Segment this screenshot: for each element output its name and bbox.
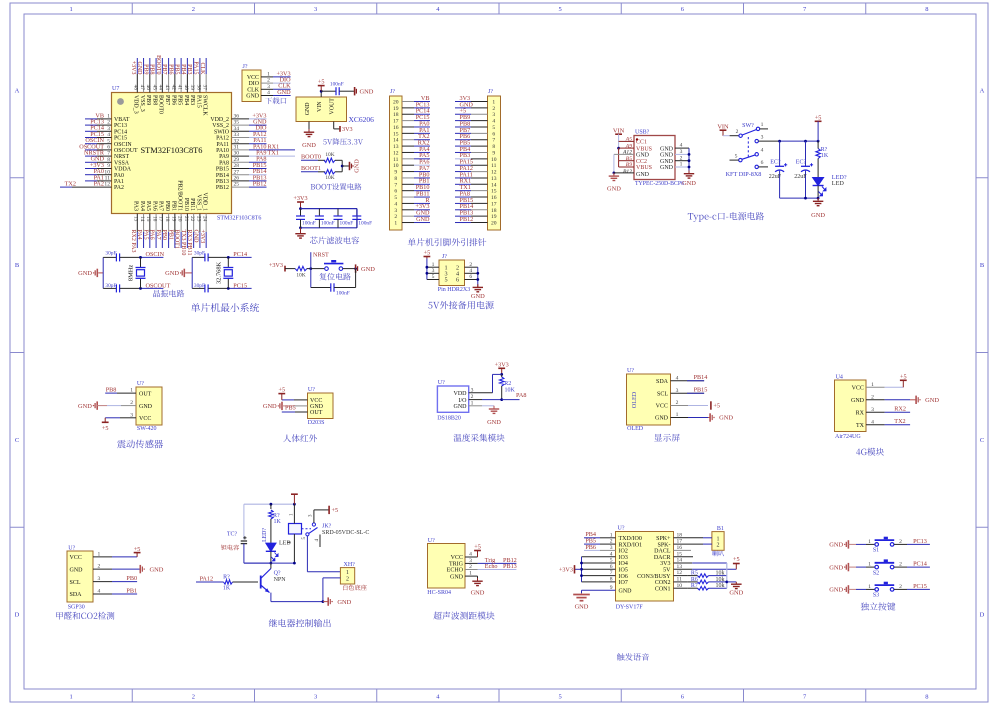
- svg-text:1: 1: [680, 162, 683, 168]
- svg-text:TX: TX: [856, 423, 865, 429]
- svg-text:3: 3: [492, 112, 495, 118]
- svg-text:LED: LED: [279, 541, 291, 547]
- svg-text:VDDA: VDDA: [114, 167, 132, 173]
- svg-text:+5: +5: [424, 249, 431, 256]
- svg-text:GND: GND: [829, 564, 843, 571]
- svg-text:I/O: I/O: [459, 398, 468, 404]
- svg-text:GND: GND: [636, 172, 650, 178]
- svg-text:U7: U7: [112, 86, 119, 92]
- svg-text:18: 18: [491, 208, 497, 214]
- svg-text:20: 20: [177, 216, 183, 222]
- svg-text:17: 17: [491, 201, 497, 207]
- svg-text:+5: +5: [733, 556, 740, 563]
- svg-text:Pin HDR2X3: Pin HDR2X3: [438, 287, 471, 293]
- svg-text:PB1: PB1: [167, 230, 173, 240]
- svg-text:5: 5: [444, 277, 447, 284]
- svg-text:5: 5: [107, 138, 110, 144]
- svg-text:3: 3: [314, 694, 317, 701]
- svg-text:GND: GND: [416, 216, 430, 223]
- svg-text:DACR: DACR: [654, 555, 671, 561]
- svg-text:5: 5: [394, 195, 397, 201]
- svg-text:35: 35: [234, 120, 240, 126]
- svg-text:39: 39: [189, 85, 195, 91]
- svg-text:TYPEC-250D-BCP6: TYPEC-250D-BCP6: [635, 181, 684, 187]
- svg-text:3V3: 3V3: [342, 126, 353, 133]
- svg-text:47: 47: [139, 85, 145, 91]
- svg-text:9: 9: [107, 163, 110, 169]
- svg-text:A: A: [15, 87, 20, 94]
- svg-text:C: C: [15, 437, 19, 444]
- svg-text:EC?: EC?: [796, 160, 807, 166]
- svg-text:SPK-: SPK-: [657, 542, 670, 548]
- svg-text:17: 17: [393, 119, 399, 125]
- svg-text:NPN: NPN: [274, 577, 287, 583]
- svg-text:PB5: PB5: [285, 405, 296, 412]
- svg-text:3: 3: [314, 6, 317, 13]
- svg-text:PA7: PA7: [158, 201, 164, 211]
- svg-text:+5: +5: [474, 544, 481, 551]
- svg-text:37: 37: [202, 85, 208, 91]
- svg-text:IO2: IO2: [619, 549, 628, 555]
- svg-text:BOOT0: BOOT0: [301, 154, 321, 161]
- svg-text:PB15: PB15: [694, 387, 708, 394]
- svg-text:PB2/BOOT1: PB2/BOOT1: [177, 180, 183, 211]
- svg-text:38: 38: [195, 85, 201, 91]
- svg-text:PB1: PB1: [126, 587, 137, 594]
- svg-text:GND: GND: [660, 146, 674, 152]
- svg-text:8: 8: [925, 694, 928, 701]
- svg-text:Air724UG: Air724UG: [835, 434, 861, 440]
- svg-text:TRIG: TRIG: [449, 562, 464, 568]
- svg-text:3: 3: [432, 268, 435, 274]
- svg-text:PA2: PA2: [114, 185, 124, 191]
- svg-text:PB7: PB7: [164, 95, 170, 105]
- svg-text:U?: U?: [627, 368, 634, 374]
- svg-text:1: 1: [868, 584, 871, 590]
- svg-text:U?: U?: [68, 545, 75, 551]
- svg-text:EC?: EC?: [770, 160, 781, 166]
- svg-text:1: 1: [492, 100, 495, 106]
- svg-text:32: 32: [234, 138, 240, 144]
- svg-text:GND: GND: [660, 153, 674, 159]
- svg-text:22uF: 22uF: [794, 174, 807, 180]
- svg-text:SRD-05VDC-SL-C: SRD-05VDC-SL-C: [322, 530, 369, 536]
- svg-text:GND: GND: [619, 589, 633, 595]
- svg-text:PB4: PB4: [180, 64, 186, 74]
- svg-text:2: 2: [899, 539, 902, 545]
- svg-text:USB?: USB?: [635, 130, 650, 136]
- svg-text:25: 25: [234, 182, 240, 188]
- svg-text:34: 34: [234, 126, 240, 132]
- svg-text:PB8: PB8: [106, 387, 117, 394]
- svg-text:B: B: [15, 262, 20, 269]
- svg-text:+5: +5: [279, 387, 286, 394]
- svg-text:BOOT1: BOOT1: [301, 165, 321, 172]
- svg-text:GND: GND: [471, 293, 485, 300]
- svg-text:SCL: SCL: [70, 580, 81, 586]
- svg-text:SW-420: SW-420: [137, 426, 157, 432]
- svg-text:+3V3: +3V3: [199, 230, 205, 244]
- svg-text:100nF: 100nF: [330, 82, 344, 88]
- svg-text:IO4: IO4: [619, 561, 628, 567]
- svg-text:5: 5: [559, 694, 562, 701]
- svg-text:PB12: PB12: [460, 216, 474, 223]
- svg-text:GND: GND: [682, 180, 696, 187]
- svg-text:15: 15: [491, 189, 497, 195]
- svg-text:8: 8: [394, 176, 397, 182]
- svg-text:PB10: PB10: [183, 198, 189, 211]
- svg-text:Echo: Echo: [485, 563, 498, 570]
- svg-text:10: 10: [491, 157, 497, 163]
- svg-text:BOOT1: BOOT1: [174, 230, 180, 249]
- svg-text:XC6206: XC6206: [349, 115, 375, 124]
- svg-text:J?: J?: [243, 64, 248, 70]
- svg-text:36: 36: [234, 114, 240, 120]
- svg-text:S1: S1: [873, 548, 879, 554]
- svg-text:GND: GND: [811, 212, 825, 219]
- svg-text:GND: GND: [471, 590, 485, 597]
- svg-text:40: 40: [183, 85, 189, 91]
- svg-text:U?: U?: [428, 538, 435, 544]
- svg-text:CON2: CON2: [655, 580, 671, 586]
- svg-text:VBUS: VBUS: [636, 165, 652, 171]
- svg-text:VSS_2: VSS_2: [212, 123, 229, 129]
- svg-text:6: 6: [469, 274, 472, 280]
- svg-text:+5: +5: [102, 425, 109, 432]
- svg-text:PA6: PA6: [151, 201, 157, 211]
- svg-text:GND: GND: [263, 403, 277, 410]
- svg-text:11: 11: [491, 163, 497, 169]
- svg-text:GND: GND: [829, 587, 843, 594]
- svg-text:1: 1: [868, 539, 871, 545]
- svg-text:PB3: PB3: [189, 95, 195, 105]
- svg-text:RX3 PB11: RX3 PB11: [186, 230, 192, 256]
- svg-text:PB3: PB3: [186, 64, 192, 74]
- svg-text:+5: +5: [900, 373, 907, 380]
- svg-text:+3V3: +3V3: [269, 262, 283, 269]
- svg-text:2: 2: [469, 262, 472, 268]
- svg-text:PB12: PB12: [253, 181, 267, 188]
- svg-text:GND: GND: [719, 415, 733, 422]
- svg-text:45: 45: [151, 85, 157, 91]
- svg-text:14: 14: [393, 138, 399, 144]
- svg-text:OSCOUT: OSCOUT: [146, 282, 171, 289]
- svg-text:GND: GND: [136, 62, 142, 76]
- svg-text:7: 7: [394, 182, 397, 188]
- svg-text:1: 1: [107, 114, 110, 120]
- svg-text:PC14: PC14: [114, 129, 127, 135]
- svg-text:PB1: PB1: [170, 201, 176, 211]
- svg-text:PC14: PC14: [913, 561, 927, 568]
- svg-text:22uF: 22uF: [769, 174, 782, 180]
- svg-text:2: 2: [899, 562, 902, 568]
- svg-text:9: 9: [492, 150, 495, 156]
- svg-text:1: 1: [70, 694, 73, 701]
- svg-text:1: 1: [868, 562, 871, 568]
- svg-text:GND: GND: [660, 159, 674, 165]
- svg-text:VIN: VIN: [317, 101, 323, 112]
- svg-text:48: 48: [133, 85, 139, 91]
- svg-text:2: 2: [192, 694, 195, 701]
- svg-text:U?: U?: [137, 381, 144, 387]
- svg-text:6: 6: [492, 131, 495, 137]
- svg-text:GND: GND: [660, 165, 674, 171]
- svg-text:100nF: 100nF: [321, 221, 335, 227]
- svg-text:PA15: PA15: [193, 61, 199, 74]
- svg-text:VSS_1: VSS_1: [195, 194, 201, 211]
- svg-text:2: 2: [107, 120, 110, 126]
- svg-text:11: 11: [393, 157, 399, 163]
- svg-text:U?: U?: [308, 387, 315, 393]
- svg-text:PA1: PA1: [114, 179, 124, 185]
- svg-text:TX1: TX1: [268, 150, 279, 157]
- svg-text:4: 4: [469, 268, 472, 274]
- svg-text:PB9: PB9: [142, 64, 148, 74]
- svg-text:RX: RX: [856, 411, 865, 417]
- svg-text:7: 7: [107, 151, 110, 157]
- svg-text:10: 10: [104, 169, 110, 175]
- svg-text:PC13: PC13: [913, 538, 927, 545]
- svg-text:8: 8: [925, 6, 928, 13]
- svg-text:GND: GND: [78, 270, 92, 277]
- svg-text:11: 11: [105, 176, 111, 182]
- svg-text:PC14: PC14: [233, 251, 247, 258]
- svg-text:100nF: 100nF: [302, 221, 316, 227]
- svg-text:PB6: PB6: [585, 544, 596, 551]
- svg-text:D: D: [980, 612, 985, 619]
- svg-text:30pF: 30pF: [105, 283, 116, 289]
- svg-text:ECHO: ECHO: [447, 568, 464, 574]
- svg-text:1: 1: [394, 221, 397, 227]
- svg-text:GND: GND: [851, 398, 865, 404]
- svg-text:B1: B1: [717, 526, 724, 532]
- svg-text:PB0: PB0: [164, 201, 170, 211]
- svg-text:2: 2: [267, 78, 270, 84]
- svg-text:26: 26: [234, 176, 240, 182]
- svg-text:5: 5: [559, 6, 562, 13]
- svg-text:TX2: TX2: [65, 181, 76, 188]
- svg-text:R2: R2: [504, 381, 511, 387]
- svg-text:PB15: PB15: [216, 167, 229, 173]
- svg-text:1: 1: [267, 72, 270, 78]
- svg-text:19: 19: [491, 214, 497, 220]
- svg-text:OSCIN: OSCIN: [114, 142, 132, 148]
- svg-text:GND: GND: [193, 230, 199, 244]
- svg-text:SCL: SCL: [657, 391, 668, 397]
- svg-text:PA7: PA7: [155, 230, 161, 240]
- svg-text:12: 12: [491, 170, 497, 176]
- svg-text:PA6: PA6: [149, 230, 155, 240]
- svg-text:6: 6: [456, 277, 459, 284]
- svg-text:RX2: RX2: [894, 406, 906, 413]
- svg-text:LED?: LED?: [262, 528, 268, 542]
- svg-text:8: 8: [107, 157, 110, 163]
- svg-text:+5: +5: [318, 78, 325, 85]
- svg-text:4: 4: [267, 90, 270, 96]
- svg-text:3V3: 3V3: [660, 561, 670, 567]
- svg-text:14: 14: [491, 182, 497, 188]
- svg-text:A: A: [980, 87, 985, 94]
- svg-text:GND: GND: [729, 590, 743, 597]
- svg-text:NRST: NRST: [114, 154, 129, 160]
- svg-text:2: 2: [192, 6, 195, 13]
- svg-text:3: 3: [761, 134, 764, 140]
- svg-text:DACL: DACL: [654, 549, 671, 555]
- svg-text:VDD_3: VDD_3: [133, 95, 139, 114]
- svg-text:12: 12: [393, 150, 399, 156]
- svg-text:IO7: IO7: [619, 580, 628, 586]
- svg-text:15: 15: [145, 216, 151, 222]
- svg-text:GND: GND: [454, 404, 468, 410]
- svg-text:SDA: SDA: [70, 592, 83, 598]
- svg-text:RXD/IO1: RXD/IO1: [619, 542, 643, 548]
- svg-text:20: 20: [393, 100, 399, 106]
- svg-text:PB14: PB14: [694, 374, 708, 381]
- svg-text:42: 42: [170, 85, 176, 91]
- svg-text:GND: GND: [165, 270, 179, 277]
- svg-text:GND: GND: [337, 599, 351, 606]
- svg-text:10K: 10K: [325, 152, 334, 158]
- svg-text:30pF: 30pF: [105, 251, 116, 257]
- svg-text:5: 5: [432, 274, 435, 280]
- svg-text:VBUS: VBUS: [636, 146, 652, 152]
- svg-text:1K: 1K: [274, 519, 282, 525]
- svg-text:17: 17: [158, 216, 164, 222]
- svg-text:19: 19: [393, 106, 399, 112]
- svg-text:18: 18: [393, 112, 399, 118]
- svg-text:KFT DIP-8X8: KFT DIP-8X8: [726, 171, 762, 178]
- svg-text:C: C: [980, 437, 984, 444]
- svg-text:10K: 10K: [505, 388, 516, 394]
- svg-text:OLED: OLED: [627, 426, 644, 432]
- svg-text:21: 21: [183, 216, 189, 222]
- svg-text:GND: GND: [360, 89, 374, 96]
- svg-text:23: 23: [195, 216, 201, 222]
- svg-text:PA2: PA2: [94, 181, 104, 188]
- svg-text:1: 1: [432, 262, 435, 268]
- svg-text:2: 2: [899, 584, 902, 590]
- svg-text:TC?: TC?: [227, 532, 238, 538]
- svg-text:+3V3: +3V3: [495, 362, 509, 369]
- svg-text:5: 5: [735, 153, 738, 159]
- svg-text:15: 15: [393, 131, 399, 137]
- svg-text:PB7: PB7: [161, 64, 167, 74]
- svg-text:XH?: XH?: [344, 562, 356, 568]
- svg-text:1: 1: [346, 570, 349, 576]
- svg-text:5: 5: [492, 125, 495, 131]
- svg-text:CC1: CC1: [636, 140, 647, 146]
- svg-text:6: 6: [394, 189, 397, 195]
- svg-text:4: 4: [492, 119, 495, 125]
- svg-text:30pF: 30pF: [194, 251, 205, 257]
- svg-text:RX2 PA3: RX2 PA3: [130, 230, 136, 253]
- svg-text:VCC: VCC: [247, 75, 259, 81]
- svg-text:PA8: PA8: [516, 392, 526, 399]
- svg-text:PC15: PC15: [913, 583, 927, 590]
- svg-text:VDD: VDD: [454, 391, 468, 397]
- svg-text:PC15: PC15: [233, 282, 247, 289]
- svg-text:S2: S2: [873, 570, 879, 576]
- svg-text:PA3: PA3: [133, 201, 139, 211]
- svg-text:VCC: VCC: [139, 416, 151, 422]
- svg-text:JK?: JK?: [322, 524, 332, 530]
- svg-text:PC15: PC15: [114, 136, 127, 142]
- svg-text:PA15: PA15: [195, 95, 201, 108]
- svg-text:CLK: CLK: [199, 63, 205, 76]
- svg-text:GND: GND: [487, 419, 501, 426]
- svg-text:OSCIN: OSCIN: [146, 251, 165, 258]
- svg-text:13: 13: [491, 176, 497, 182]
- svg-text:J?: J?: [390, 89, 395, 95]
- svg-text:PB13: PB13: [216, 179, 229, 185]
- svg-text:6: 6: [107, 145, 110, 151]
- svg-text:CON3/BUSY: CON3/BUSY: [637, 574, 671, 580]
- svg-text:18: 18: [164, 216, 170, 222]
- svg-text:3: 3: [394, 208, 397, 214]
- svg-text:NRST: NRST: [313, 252, 329, 259]
- svg-text:PB6: PB6: [170, 95, 176, 105]
- svg-text:PB12: PB12: [216, 185, 229, 191]
- svg-text:2: 2: [736, 129, 739, 135]
- svg-text:B: B: [980, 262, 985, 269]
- svg-text:1: 1: [70, 6, 73, 13]
- svg-text:41: 41: [177, 85, 183, 91]
- svg-text:16: 16: [151, 216, 157, 222]
- svg-text:+3V3: +3V3: [559, 567, 573, 574]
- svg-text:DY-SV17F: DY-SV17F: [616, 604, 644, 610]
- svg-text:4: 4: [394, 201, 397, 207]
- svg-text:PB0: PB0: [126, 575, 137, 582]
- svg-text:PA0: PA0: [114, 173, 124, 179]
- svg-text:1: 1: [717, 536, 720, 542]
- svg-text:OUT: OUT: [139, 391, 152, 397]
- svg-text:LED: LED: [832, 180, 845, 187]
- svg-text:3: 3: [267, 84, 270, 90]
- svg-text:12: 12: [104, 182, 110, 188]
- svg-text:29: 29: [234, 157, 240, 163]
- svg-text:PC13: PC13: [114, 123, 127, 129]
- svg-text:8MHz: 8MHz: [128, 265, 135, 281]
- svg-text:14: 14: [139, 216, 145, 222]
- svg-text:SWCLK: SWCLK: [202, 95, 208, 116]
- svg-text:+3V3: +3V3: [130, 61, 136, 75]
- svg-text:B12: B12: [623, 169, 632, 175]
- svg-text:22: 22: [189, 216, 195, 222]
- svg-text:D: D: [15, 612, 20, 619]
- svg-text:10K: 10K: [296, 273, 305, 279]
- svg-text:46: 46: [145, 85, 151, 91]
- svg-text:PB8: PB8: [151, 95, 157, 105]
- svg-text:2: 2: [717, 543, 720, 549]
- svg-text:CON1: CON1: [655, 586, 671, 592]
- svg-text:1K: 1K: [223, 586, 231, 592]
- svg-text:+5: +5: [713, 403, 720, 410]
- svg-text:GND: GND: [78, 403, 92, 410]
- svg-text:44: 44: [158, 85, 164, 91]
- svg-text:D203S: D203S: [308, 420, 325, 426]
- svg-text:GND: GND: [310, 404, 324, 410]
- svg-text:PB6: PB6: [167, 64, 173, 74]
- svg-text:10k: 10k: [716, 577, 725, 583]
- svg-text:16: 16: [491, 195, 497, 201]
- svg-text:1K: 1K: [821, 153, 829, 159]
- svg-text:PB4: PB4: [183, 95, 189, 105]
- svg-text:100nF: 100nF: [336, 291, 350, 297]
- svg-text:100nF: 100nF: [340, 221, 354, 227]
- svg-text:IO6: IO6: [619, 574, 628, 580]
- svg-text:10K: 10K: [325, 175, 334, 181]
- svg-text:GND: GND: [575, 603, 589, 610]
